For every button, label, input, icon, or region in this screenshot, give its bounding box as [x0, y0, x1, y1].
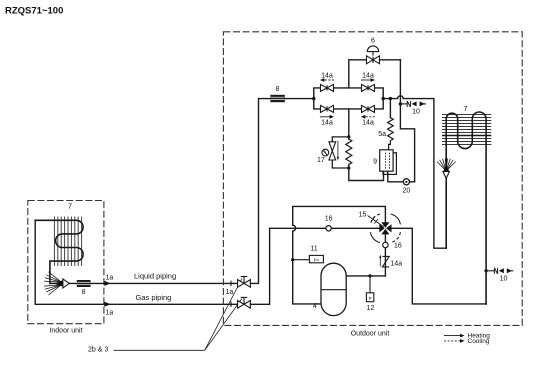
wire: liquid riser from stop valve up to filter [250, 99, 270, 284]
check valve 14a (bridge bottom-right) [362, 105, 369, 112]
thermistor 16 (suction line) [326, 226, 331, 231]
svg-text:Cooling: Cooling [468, 338, 490, 345]
svg-text:P: P [369, 296, 372, 301]
flare tick on gas line at outdoor entry [230, 302, 232, 307]
svg-text:Outdoor unit: Outdoor unit [351, 331, 390, 338]
flare connection arrow 1a (liquid, indoor box edge) [104, 281, 111, 286]
wire: suction line (gas riser to 4-way valve) [270, 227, 380, 229]
node: service port tap on discharge riser [399, 102, 402, 105]
wire: sight glass to riser [410, 181, 415, 183]
svg-text:RZQS71~100: RZQS71~100 [5, 6, 63, 17]
svg-text:16: 16 [394, 243, 402, 250]
svg-text:14a: 14a [362, 73, 374, 80]
svg-text:6: 6 [371, 38, 375, 45]
compressor 9 [383, 153, 396, 175]
svg-text:1a: 1a [226, 289, 234, 296]
svg-text:10: 10 [412, 109, 420, 116]
svg-text:2b & 3: 2b & 3 [88, 347, 108, 354]
node: bridge left junction [312, 97, 315, 100]
indoor distributor nozzle triangle [63, 279, 69, 288]
wire: compressor bottom to sight glass 20 [388, 171, 404, 182]
wire: filter to check-valve bridge left node [285, 98, 314, 100]
wire: indoor liquid line coil to box edge [50, 282, 104, 284]
svg-text:1a: 1a [106, 275, 114, 282]
wire: bridge bottom tap down [348, 109, 350, 137]
sight glass 20 [403, 179, 409, 185]
check valve 14a (vertical) [379, 255, 402, 268]
wire: block bottom to compressor bottom-left [349, 168, 384, 181]
outdoor heat exchanger fins [442, 115, 491, 145]
four-way valve 15 [379, 222, 391, 234]
svg-text:8: 8 [82, 289, 86, 296]
svg-text:15: 15 [359, 212, 367, 219]
stop valve 3 (gas service valve) [238, 297, 251, 308]
svg-text:14a: 14a [321, 73, 333, 80]
svg-text:7: 7 [68, 202, 72, 211]
check valve 14a (bridge top-right) [362, 84, 369, 91]
wire: gas piping field line [110, 303, 238, 305]
wire: 4-way valve right port to outdoor coil gas side [392, 228, 487, 304]
node: HPS tap on accumulator inlet drop [291, 258, 294, 261]
capillary tube (parallel with EEV 17) [346, 139, 352, 165]
svg-text:4: 4 [313, 303, 317, 310]
thermistor 16 (below 4-way valve) [383, 242, 388, 247]
svg-text:14a: 14a [362, 120, 374, 127]
svg-text:7: 7 [463, 104, 467, 113]
wire: to accumulator outlet [346, 275, 385, 277]
wire: EEV bypass loop [332, 137, 349, 168]
svg-text:10: 10 [500, 276, 508, 283]
check valve 14a (bridge top-left) [321, 84, 328, 91]
svg-text:1a: 1a [106, 310, 114, 317]
accumulator 4 [321, 263, 346, 315]
legend: cooling arrow [444, 340, 461, 342]
outdoor distributor nozzle triangle [443, 172, 449, 179]
wire: 4-way valve bottom port down [384, 234, 386, 276]
outdoor heat exchanger coil 7 [446, 112, 486, 304]
svg-text:5a: 5a [378, 131, 386, 138]
indoor heat exchanger fins [54, 217, 81, 267]
wire: valve 6 to discharge riser [380, 59, 401, 61]
high pressure switch 11 [293, 259, 310, 261]
node: EEV bypass top junction [347, 135, 350, 138]
capillary tube 5a [389, 99, 391, 118]
svg-text:16: 16 [325, 216, 333, 223]
svg-text:11: 11 [310, 246, 317, 253]
wire: gas riser from stop valve up to suction line [250, 228, 269, 304]
flare tick 1a on liquid line at outdoor entry [230, 281, 232, 286]
valve 6 (with actuator dome) [367, 56, 374, 64]
svg-text:17: 17 [317, 157, 325, 164]
check valve bridge rails [314, 88, 383, 109]
svg-text:8: 8 [276, 86, 280, 93]
indoor distributor spray rays [44, 272, 61, 295]
svg-text:9: 9 [373, 159, 377, 166]
svg-text:P<: P< [314, 258, 320, 263]
service port 10 (gas side) [486, 268, 513, 283]
node: service port tap on coil gas riser [484, 269, 487, 272]
wire hop over suction line [293, 225, 296, 231]
filter 8 (outdoor) [270, 95, 284, 102]
indoor unit dashed enclosure [28, 201, 104, 324]
pressure sensor 12 [369, 276, 371, 293]
svg-text:Gas piping: Gas piping [136, 293, 172, 302]
svg-text:Indoor unit: Indoor unit [49, 328, 82, 335]
service port 10 (discharge) [400, 101, 426, 116]
outdoor distributor spray rays [437, 158, 456, 170]
flare connection arrow 1a (gas, indoor box edge) [104, 302, 111, 307]
four-way valve mode arcs [391, 214, 401, 224]
node: pressure sensor tap [368, 274, 371, 277]
node: bridge right junction [382, 97, 385, 100]
filter 8 (indoor) [77, 280, 91, 287]
svg-text:14a: 14a [321, 120, 333, 127]
wire: liquid piping field line [110, 282, 238, 284]
legend: heating arrow [444, 335, 461, 337]
wire: bridge right node to outdoor coil feed (hops over discharge riser) [383, 96, 446, 248]
wire: indoor gas-side line from coil to box edge [35, 220, 104, 304]
outdoor unit dashed enclosure [223, 32, 522, 326]
node: 5a tap junction [389, 97, 392, 100]
stop valve 2b (liquid service valve) [238, 277, 251, 288]
check valve 14a (bridge bottom-left) [321, 105, 328, 112]
wire: discharge riser from valve 6 down to muffler line [400, 60, 414, 182]
electronic expansion valve 17 [329, 142, 336, 151]
svg-text:14a: 14a [391, 261, 403, 268]
wire: 4-way valve top loop, hops over suction line, down to accumulator inlet [293, 206, 386, 304]
indoor heat exchanger coil 7 [35, 220, 83, 283]
node: EEV bypass bottom junction [347, 166, 350, 169]
wire: bridge top tap to valve 6 line [349, 60, 367, 88]
svg-text:Liquid piping: Liquid piping [134, 272, 176, 281]
svg-text:20: 20 [403, 188, 411, 195]
svg-text:12: 12 [367, 305, 375, 312]
